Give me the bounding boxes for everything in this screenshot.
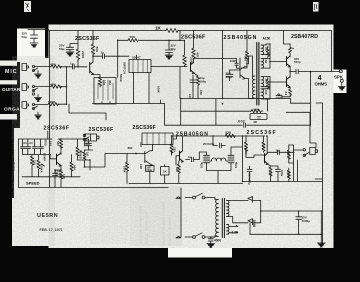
svg-text:PRINTED IN JAPAN: PRINTED IN JAPAN [168,215,172,246]
switch S1b [193,236,196,239]
text labels: transistor names row 1 [26,25,344,232]
svg-text:56K: 56K [56,141,60,147]
svg-text:100μ: 100μ [234,162,238,168]
arrow lead bottom [176,236,181,238]
small value labels [12,32,311,243]
T1 secondary winding b [261,59,266,69]
resistor 21K Q9 [262,136,265,152]
white gap bar above MIC [0,61,17,66]
svg-text:4700: 4700 [44,139,48,146]
svg-text:2SB407RD: 2SB407RD [291,34,318,40]
svg-text:22K: 22K [173,147,177,153]
capacitor .01 a [21,145,26,151]
svg-text:ORGAN: ORGAN [4,107,24,113]
wire Q6 collector up [48,131,61,155]
svg-text:220K: 220K [81,51,85,59]
capacitor 35V 1000u [296,211,302,234]
line jack horizontal [294,149,303,151]
wire stage2 bottom bus [181,99,291,126]
svg-text:1μ: 1μ [188,155,192,159]
svg-text:50μ: 50μ [171,47,176,51]
box 1K [161,167,170,176]
svg-text:MIC: MIC [5,69,18,75]
capacitor .002 on bus [244,123,246,127]
svg-text:56K: 56K [254,107,260,111]
paper: SPK terminal patch [334,70,347,94]
paper grain overlay [12,25,334,249]
svg-text:47K: 47K [196,52,200,58]
resistor 320 row3 rail [225,134,235,137]
svg-text:12Ω: 12Ω [264,58,268,64]
resistor 220 Q9 emitter [268,164,272,181]
resistor 120 bias upper [266,46,269,58]
wire power switch row top [185,197,193,199]
wire Q3 collector to transformer primary [247,56,253,76]
resistor 1K on rail [166,29,178,33]
svg-text:50KB: 50KB [119,74,123,83]
svg-text:21K: 21K [262,143,266,148]
wire row3 right area [180,136,243,184]
wire Q2 row bottom [180,67,198,99]
transistor Q7 2SC536F (bar style) [145,151,153,166]
SPK terminal lower + ground [340,79,343,82]
svg-text:2SC536F: 2SC536F [75,36,100,42]
paper: main schematic sheet [49,25,347,258]
svg-text:100P: 100P [230,59,237,63]
resistor 0.5 emitter Q4 [289,44,292,57]
ground fill triangles [31,44,345,248]
wire Q9 collector [266,136,268,154]
resistor 130K [244,141,247,153]
wire volume feed vertical [117,40,119,77]
capacitor 35V 50u island plates [31,35,38,38]
transistor Q4 2SB407RD upper (bar) [287,56,291,67]
jack GUITAR contacts [32,85,34,87]
wire Q1 emitter [93,75,100,78]
svg-text:120: 120 [188,94,192,99]
svg-text:MODEL UE5RN SER: MODEL UE5RN SER [145,211,149,244]
resistor 56K Q6 [70,155,73,177]
feedback box 50047 [129,60,151,73]
svg-text:100KA: 100KA [40,164,44,173]
transistor Q1 2SC536F (bar) [90,62,94,75]
wire into Q2 base [151,66,187,68]
svg-text:100μ: 100μ [208,142,215,146]
paper: top-left island with filter cap [17,29,45,63]
wire lower stage bottom [266,96,291,99]
ground stage1 cap [66,52,74,56]
svg-text:10K: 10K [139,164,143,170]
ground main filter [207,237,215,248]
wire mid verticals [129,136,180,184]
transistor Q3 2SB405GN driver (bar style) [240,58,247,79]
white gap bar above GUITAR [0,80,17,84]
intensity box [142,133,173,145]
wire box pins down [69,73,149,121]
wire B- bottom [250,211,321,243]
wire lower pin bus [93,100,165,104]
resistor 56K bias [128,39,138,42]
jack ORGAN contacts [32,103,34,105]
transistor Q8 2SB405GN vib out (bar) [180,151,184,162]
capacitor 25V 50u stage2 + ground [165,40,173,59]
phase shift cap bank left [199,152,209,170]
svg-text:.01: .01 [23,141,28,145]
wire bias resistor 220K drop [77,31,79,50]
svg-text:SILICON TRANS AMP: SILICON TRANS AMP [139,205,143,244]
capacitor 18V 100u box [146,165,154,171]
svg-text:SPEED: SPEED [26,181,40,186]
svg-text:100K: 100K [48,100,56,104]
svg-text:3.3KB: 3.3KB [12,161,16,171]
resistor 56K Q6 collector [59,139,62,148]
svg-text:220K: 220K [190,57,194,65]
wire S1b leads [185,236,215,238]
capacitor .01 b [26,145,31,151]
pot 100KB [76,139,83,160]
svg-text:100K: 100K [123,166,127,174]
capacitor 25V 50u vib [85,139,93,150]
svg-text:SPK: SPK [334,74,344,79]
svg-text:56K: 56K [73,165,77,171]
wire Q2 emitter resistor and cap [190,73,200,90]
wire input mixing node vertical [66,67,68,104]
svg-text:910: 910 [49,141,53,146]
capacitor 1u out stage1 [103,54,118,59]
resistor emitter Q1 [98,77,101,87]
wire ORGAN row [35,103,67,105]
svg-text:2SC536F: 2SC536F [44,126,70,132]
vibrato section left border [18,139,20,187]
svg-text:1μ: 1μ [101,51,105,55]
svg-text:2SC536F: 2SC536F [181,35,206,41]
svg-text:320: 320 [225,131,231,135]
capacitor 25V 100u mid [226,70,240,81]
T2 secondary 6.3V [226,225,229,235]
ground island [30,43,38,47]
paper scrap glyph top-right [313,2,319,12]
paper scrap glyph top-left [24,1,31,12]
capacitor 35V 500u output [296,69,340,74]
black gap strip between island and sheet [45,29,49,56]
svg-text:100K: 100K [157,86,161,94]
svg-text:500μ: 500μ [294,60,301,64]
resistor 56K feedback + loop box [250,99,267,113]
svg-text:50μ: 50μ [85,142,90,146]
resistor 120 bias lower [266,78,269,90]
svg-text:100μ: 100μ [280,170,284,176]
transistor Q2 2SC536F (bar) [191,62,195,73]
wire phase bank bottoms [207,171,232,184]
svg-text:100μ: 100μ [55,173,62,177]
T1 primary coil [252,76,255,98]
wire footswitch down [84,141,86,146]
wire tone bottoms [19,169,169,188]
svg-text:GUITAR: GUITAR [2,87,21,92]
SPK terminal upper [339,70,342,73]
svg-text:TRANSFORMER POWER: TRANSFORMER POWER [162,201,166,246]
svg-text:8200: 8200 [287,171,291,177]
svg-text:47K: 47K [50,62,56,66]
svg-text:120: 120 [264,79,268,84]
driver transformer T1 core [257,43,259,106]
resistor 47K mic [51,65,61,68]
svg-text:2SB405GN: 2SB405GN [176,131,209,137]
resistor 56K collector Q1 [91,44,95,54]
wire Q7 collector to box [151,145,153,151]
capacitor .01 c [33,145,38,151]
resistor 1M [83,150,86,162]
capacitor 100u 25V Q9 bypass [271,166,281,182]
svg-text:1N48: 1N48 [252,220,256,228]
svg-text:100KB: 100KB [79,150,83,159]
svg-text:1K: 1K [155,25,162,30]
wire Q6 emitter + resistor 12K [59,166,62,188]
svg-text:8.2: 8.2 [284,92,288,96]
T1 secondary winding a [261,45,266,55]
wire long lower bus [165,104,311,126]
capacitor 4600 main filter [208,237,213,244]
paper: left strip with jacks and tone section [12,58,55,246]
arrow lead top [176,197,181,199]
wire collector Q2 [192,31,196,63]
wire tone top row [19,138,89,140]
svg-text:2SC536F: 2SC536F [133,125,156,131]
svg-text:12K: 12K [62,174,66,179]
svg-text:2SB405GN: 2SB405GN [224,35,258,41]
power transformer T2 primary [215,200,219,237]
svg-text:820: 820 [175,167,179,172]
svg-text:1μ: 1μ [70,62,74,66]
wire feedback long vertical [316,103,323,245]
svg-text:56K: 56K [287,152,291,157]
T2 core [222,199,224,238]
wire lower output base [270,77,282,100]
wire stage2 bias rail [118,39,185,41]
svg-text:2SC536F: 2SC536F [89,127,114,133]
wire vib node down [78,160,95,170]
diode D1 1N48 [248,197,261,203]
svg-text:SWITCH: SWITCH [123,62,127,74]
svg-text:.002: .002 [237,120,245,124]
wire HV taps [229,201,248,223]
ground below ORGAN jack [35,112,42,119]
wire collector drop Q1 [92,31,94,45]
svg-text:47K: 47K [50,82,56,86]
svg-text:15K: 15K [199,90,203,96]
svg-text:56K: 56K [130,35,136,39]
white gap bar below ORGAN [0,114,17,120]
capacitor 25V 50u stage1 [67,44,79,53]
svg-text:318: 318 [264,90,268,95]
resistor 22K [170,142,173,155]
wire tick right [315,178,323,180]
svg-text:10μ: 10μ [103,80,107,85]
T2 secondary HV [226,201,229,217]
resistor 220K vertical [76,49,80,61]
resistor 56K out [287,145,290,163]
wire 6.3V arrows [229,225,238,233]
wire Q1 collector to coupling [93,55,103,57]
white panel labels on black [2,69,24,113]
resistor 8200 out [287,168,290,182]
svg-text:50μ: 50μ [22,35,27,39]
svg-text:50047: 50047 [132,56,141,60]
resistor 220K bias Q2 [180,31,186,67]
switch S1a [193,196,196,199]
wire bottom left stub [249,223,251,235]
capacitor 1u coupling [70,65,87,70]
pot 100KA speed [37,155,45,173]
svg-text:21K: 21K [33,160,37,166]
wire Q9 base [246,155,264,157]
ext speaker jack plug [310,148,318,155]
ground right bottom [317,243,325,247]
ground below MIC jack [35,71,42,79]
svg-text:OHMS: OHMS [315,81,328,86]
wire caps top connect [23,139,46,155]
svg-text:6.3V: 6.3V [232,230,239,234]
svg-text:A156: A156 [263,37,271,41]
svg-text:UE5RN: UE5RN [37,213,58,219]
resistor emitter Q5 8.2 [282,87,292,98]
svg-text:350: 350 [108,80,112,85]
svg-text:100μ: 100μ [226,75,233,79]
wire MIC row [35,66,71,68]
resistor 820 Q8 emitter [177,161,180,184]
svg-text:2SC536F: 2SC536F [247,130,277,136]
capacitor 1000P d [39,145,44,151]
svg-text:100μ: 100μ [200,162,204,168]
wire Q8 base/collector [176,136,183,165]
wire feedback row [181,110,250,112]
svg-text:310: 310 [139,142,143,147]
wire S1a to T2 [205,198,215,200]
svg-text:510: 510 [243,56,247,61]
transistor Q6 vibrato osc 2SC536F (bar) [57,153,62,166]
ext speaker jack contacts [303,149,305,151]
diode D2 1N48 [248,219,261,225]
T1 secondary winding c [261,77,266,87]
transistor Q9 2SC536F (bar) [265,154,269,165]
T1 secondary winding d [261,89,266,99]
wire stage2-3 coupling [194,31,223,99]
wire Q6 base [45,155,57,159]
wire row3 top rail [172,136,266,154]
phase shift inductor [210,158,228,161]
wire right area verticals [310,113,316,148]
wire rail end drop [331,31,333,72]
svg-text:50μ: 50μ [59,47,64,51]
resistor 100K Q7 base leg [125,154,128,184]
resistor 100K organ [48,103,58,106]
wire Q3 emitter [245,79,253,99]
svg-text:1000μ: 1000μ [302,219,311,223]
wire T1 taps to output bases [266,44,270,99]
svg-text:1000P: 1000P [43,153,47,161]
svg-text:220: 220 [269,171,273,176]
capacitor 35V 50u island: wire [28,30,49,44]
svg-text:100μ: 100μ [146,168,152,172]
svg-text:1μ: 1μ [276,149,280,153]
jack MIC contacts [32,65,34,67]
jack ORGAN plug [22,102,29,109]
svg-text:MF: MF [254,120,258,124]
wire link to Q7 [95,154,145,168]
ground below GUITAR jack [35,95,42,102]
faint stamp text column [139,201,172,246]
wire output node [290,67,296,78]
jack MIC plug [22,64,29,71]
svg-text:FEB. 17, 1971: FEB. 17, 1971 [40,228,63,232]
svg-text:.01: .01 [29,141,34,145]
transistor Q5 2SB407RD lower (bar) [287,77,291,88]
svg-text:1M: 1M [86,152,90,157]
capacitor lower 50u [276,94,282,99]
resistor 47K guitar [51,85,61,88]
wire speaker return vertical [286,72,310,126]
gray tone blotches [130,186,182,246]
svg-text:120: 120 [264,47,268,52]
svg-text:35V 100μ: 35V 100μ [248,173,252,185]
tone/volume block box [94,78,116,105]
jack GUITAR plug [22,84,29,91]
capacitor 100P [223,59,240,69]
resistor 21K vertical [30,156,33,169]
wire: V+ top rail [49,30,332,32]
capacitor 1u Q9 out [267,150,285,155]
svg-text:860: 860 [128,146,133,150]
wire GUITAR row [35,86,67,88]
svg-text:130K: 130K [244,148,248,155]
wire rectifier join [261,201,322,223]
wire out jack row [243,145,323,182]
capacitor 35V 100u row3b [247,166,252,182]
footswitch jack plug [91,134,100,141]
resistor 510 driver bias [241,31,248,69]
capacitor 1u Q8 out [186,157,200,162]
svg-text:56K: 56K [95,47,99,53]
svg-text:50μ: 50μ [277,93,282,97]
wire arrow vertical link [180,188,182,237]
wire Q4 collector to rail top [284,31,291,45]
phase shift cap bank right [228,147,234,170]
svg-text:100μ: 100μ [200,80,207,84]
capacitor 12V 100u emitter bypass [53,170,62,187]
wire upper output base [270,44,282,68]
wire: left schematic border [49,31,51,188]
capacitor 25V 100u row3 [213,136,225,148]
svg-text:4600: 4600 [214,239,221,243]
